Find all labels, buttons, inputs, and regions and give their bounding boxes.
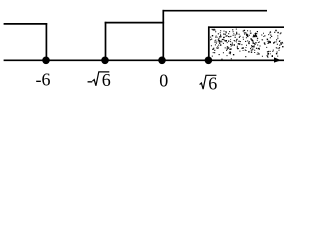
node -6 (filled point)	[42, 57, 50, 65]
svg-text:-6: -6	[36, 70, 51, 90]
shaded region left border / vertical at x=sqrt6	[208, 26, 210, 58]
svg-text:0: 0	[159, 70, 168, 90]
wire vertical at x=0	[162, 10, 164, 58]
step segment (-inf,-6)	[4, 23, 48, 25]
radical sign of -sqrt6	[92, 72, 109, 86]
number-line axis	[4, 59, 284, 61]
stipple fill of shaded region	[210, 29, 284, 60]
step segment (-sqrt6,0)	[105, 22, 164, 24]
radical sign of sqrt6	[200, 75, 217, 89]
axis arrowhead	[274, 57, 281, 62]
node sqrt6 (filled point)	[205, 57, 213, 65]
node -sqrt6 (filled point)	[101, 57, 109, 65]
svg-text:-: -	[87, 70, 93, 90]
wire vertical at x=-6	[45, 23, 47, 58]
node 0 (filled point)	[158, 57, 166, 65]
wire vertical at x=-sqrt6	[105, 22, 107, 58]
step segment (0,+inf) top level	[163, 10, 268, 12]
svg-text:6: 6	[102, 70, 111, 90]
shaded region top border	[208, 26, 284, 28]
svg-text:6: 6	[208, 74, 217, 94]
